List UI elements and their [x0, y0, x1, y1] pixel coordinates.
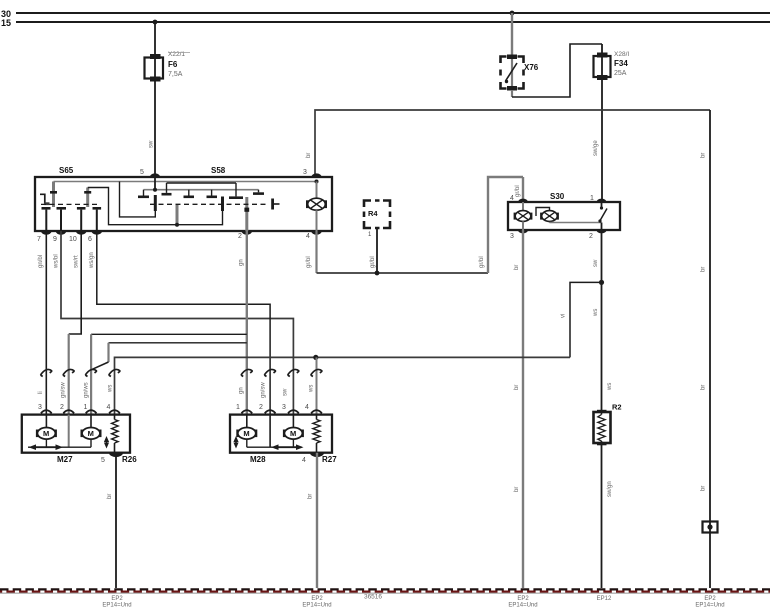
link line under motors [247, 446, 302, 448]
svg-text:7: 7 [37, 236, 41, 243]
svg-text:gn: gn [239, 259, 245, 266]
link line under motors [28, 446, 91, 448]
svg-text:EP14=Und: EP14=Und [302, 603, 331, 609]
fuse F6 7,5A [145, 54, 164, 82]
svg-text:br: br [308, 494, 314, 499]
wire br down right side to ground [709, 110, 711, 588]
svg-text:gn/ws: gn/ws [84, 382, 90, 398]
svg-text:br: br [514, 487, 520, 492]
svg-text:gn/bl: gn/bl [38, 255, 44, 268]
wire S65 pin10 net [69, 231, 82, 334]
direction arrow (vertical) M27 [106, 439, 108, 446]
svg-text:EP12: EP12 [597, 596, 612, 602]
pin bumps M28 top [241, 410, 252, 413]
S65 internal rail R1 (gray) [54, 181, 317, 183]
motor M28-a [236, 428, 257, 440]
wire into S30 pin 4 [522, 177, 524, 202]
wire S58 pin4 down [315, 231, 317, 273]
resistor R27 zigzag [316, 415, 318, 420]
ground bus bar [0, 589, 770, 593]
S58 fixed contact A [143, 190, 145, 196]
pin 4 bottom bump [311, 231, 322, 235]
svg-text:br: br [701, 267, 707, 272]
svg-text:li: li [38, 391, 44, 394]
svg-text:M27: M27 [57, 455, 73, 464]
S65 moving contact bar 2 [86, 188, 89, 208]
fuse F34 25A [594, 44, 611, 80]
resistor R2 [594, 410, 611, 446]
svg-text:ws: ws [108, 385, 114, 393]
direction arrow (horizontal) M28 [275, 446, 300, 448]
svg-text:gr/bl: gr/bl [479, 256, 485, 268]
svg-text:M: M [88, 429, 94, 438]
svg-text:1: 1 [84, 404, 88, 411]
node junction y357 at M28 pin4 [313, 355, 318, 360]
switch contact in S30 [598, 202, 607, 230]
S65-S58 link wire (path A) [88, 188, 223, 225]
svg-text:2: 2 [60, 404, 64, 411]
svg-text:7,5A: 7,5A [168, 71, 183, 78]
svg-text:br: br [514, 385, 520, 390]
node junction M2 [175, 223, 179, 227]
S58 fixed contact D [211, 190, 213, 196]
svg-text:EP14=Und: EP14=Und [695, 603, 724, 609]
wire up to y177 [488, 177, 523, 273]
pin 4 bottom bump [310, 453, 324, 457]
S65 fixed contact pin 7 [42, 207, 51, 210]
svg-text:S58: S58 [211, 166, 226, 175]
inline connector on br wire [703, 522, 718, 533]
svg-text:br: br [701, 486, 707, 491]
svg-text:sw/rt: sw/rt [74, 255, 80, 268]
motor unit box M27/R26 [22, 415, 130, 453]
S58 fixed contact B [166, 183, 168, 193]
svg-text:EP2: EP2 [311, 596, 323, 602]
svg-text:1: 1 [368, 232, 372, 238]
motor unit box M28/R27 [230, 415, 332, 453]
svg-text:ws: ws [607, 383, 613, 391]
wire net y334 (to M27 pin1) [91, 333, 247, 335]
pin 3 top bump [311, 173, 321, 177]
wire M28 pin4 stub [316, 357, 318, 414]
svg-text:R4: R4 [368, 209, 378, 218]
svg-text:4: 4 [510, 195, 514, 202]
S58 coupling dashed line [150, 203, 268, 205]
wire rail 30 [16, 12, 770, 14]
svg-text:5: 5 [101, 457, 105, 464]
svg-text:br: br [107, 494, 113, 499]
svg-text:4: 4 [306, 233, 310, 240]
svg-text:EP2: EP2 [517, 596, 529, 602]
svg-text:9: 9 [53, 236, 57, 243]
motor M27-b [81, 428, 102, 440]
svg-text:X76: X76 [524, 63, 539, 72]
S58 moving contact M4 (pin 2, gray) [245, 197, 248, 231]
svg-text:ws: ws [309, 385, 315, 393]
svg-text:6: 6 [88, 236, 92, 243]
switch unit box S65/S58 [35, 177, 332, 231]
svg-text:S30: S30 [550, 192, 565, 201]
svg-text:vi: vi [561, 314, 567, 318]
svg-text:R2: R2 [612, 403, 622, 412]
resistor R26 zigzag [114, 415, 116, 420]
wire net y343 with diagonal [109, 342, 247, 344]
wire M27 pin4 / y357 net [115, 357, 571, 414]
svg-text:X22/1: X22/1 [168, 51, 185, 58]
svg-text:R27: R27 [322, 455, 337, 464]
S65 fixed contact pin 9 [57, 207, 67, 210]
svg-text:gr/bl: gr/bl [370, 256, 376, 268]
node junction on rail 15 at x=155 [153, 20, 158, 25]
svg-text:gn: gn [239, 387, 245, 394]
svg-text:F6: F6 [168, 60, 178, 69]
S65 fixed contact pin 10 [77, 207, 86, 210]
svg-text:br: br [514, 265, 520, 270]
S58 fixed contact E [235, 183, 237, 196]
pin 7 bottom bump [41, 231, 52, 235]
svg-text:br: br [306, 153, 312, 158]
wire F34 down to S30 pin 1 [601, 78, 603, 202]
motor M28-b [283, 428, 304, 440]
pin 4 top bump [518, 199, 528, 202]
svg-text:R26: R26 [122, 455, 137, 464]
motor M27-a [36, 428, 57, 440]
svg-text:3: 3 [38, 404, 42, 411]
S58 internal rail R2 (gray) [144, 189, 259, 191]
pin bumps M27 top [41, 410, 52, 413]
S65 fixed contact pin 6 [93, 207, 102, 210]
svg-text:EP14=Und: EP14=Und [508, 603, 537, 609]
wire X76 to F34 (L path) [512, 44, 602, 97]
svg-text:15: 15 [1, 18, 11, 28]
svg-text:X28/I: X28/I [614, 51, 629, 58]
svg-text:EP14=Und: EP14=Und [102, 603, 131, 609]
S58 link wire (path B) [120, 182, 156, 217]
S65 end stop hook [40, 194, 45, 203]
wire F6 to S58 pin 5 [154, 80, 156, 177]
svg-text:M: M [290, 429, 296, 438]
pin 2 bottom bump [242, 231, 253, 235]
svg-text:gn/sw: gn/sw [261, 382, 267, 398]
S58 moving contact M1 [154, 195, 157, 211]
svg-text:5: 5 [140, 169, 144, 176]
S58 fixed contact F [258, 190, 260, 193]
wire branch to y357 net [570, 282, 602, 357]
svg-text:sw/gn: sw/gn [607, 481, 613, 497]
S58 internal rail R3 (black) [167, 182, 237, 184]
svg-text:3: 3 [510, 233, 514, 240]
node junction lamp top [315, 180, 319, 184]
wire S30 pin2 down [601, 230, 603, 412]
lamp 1 in S30 [514, 202, 533, 230]
svg-text:ws/gn: ws/gn [89, 252, 95, 269]
svg-text:2: 2 [259, 404, 263, 411]
pin 3 bottom bump [518, 230, 528, 233]
resistor R4 (dashed box) [364, 201, 390, 229]
svg-text:sw/ge: sw/ge [593, 140, 599, 156]
wire pin2 into box [68, 415, 70, 448]
svg-text:gr/bl: gr/bl [515, 185, 521, 197]
svg-text:ws/bl: ws/bl [54, 254, 60, 269]
S58 fixed contact C [188, 190, 190, 196]
S58 pin5 internal wire [154, 177, 156, 190]
S58 moving contact M3 [221, 197, 224, 212]
wire S58 pin2 to M28 pin1 (gray) [246, 231, 248, 415]
lamp in S58 [306, 182, 327, 232]
wire M28 pin4 to ground EP2 [316, 453, 318, 588]
svg-text:10: 10 [69, 236, 77, 243]
pin 2 bottom bump [597, 230, 607, 233]
pin 6 bottom bump [92, 231, 103, 235]
svg-text:sw: sw [593, 259, 599, 267]
svg-text:36516: 36516 [364, 594, 382, 601]
svg-text:br: br [701, 153, 707, 158]
wire R2 to ground EP12 [601, 443, 603, 588]
wire S65 pin7 to M27 pin3 [45, 231, 47, 415]
svg-text:2: 2 [238, 233, 242, 240]
svg-text:M: M [43, 429, 49, 438]
svg-text:sw: sw [283, 388, 289, 396]
svg-text:3: 3 [282, 404, 286, 411]
svg-text:4: 4 [107, 404, 111, 411]
wire M27 pin5 to ground EP2 [115, 453, 117, 588]
svg-text:M28: M28 [250, 455, 266, 464]
lamp 2 in S30 [536, 208, 602, 223]
svg-text:ws: ws [593, 309, 599, 317]
S58 moving contact M2 (gray) [176, 205, 179, 225]
pin 5 bottom bump [109, 453, 123, 457]
svg-text:gr/bl: gr/bl [306, 256, 312, 268]
wire S65 pin9 net y320 [61, 231, 293, 415]
pin 9 bottom bump [56, 231, 67, 235]
wire S30 pin3 to ground EP2 [522, 230, 524, 588]
S65 moving contact bar 1 [52, 182, 55, 208]
wire rail 15 [16, 21, 770, 23]
svg-text:2: 2 [589, 233, 593, 240]
svg-text:25A: 25A [614, 70, 627, 77]
pin 5 top bump [150, 173, 160, 177]
svg-text:S65: S65 [59, 166, 74, 175]
wire S65 pin6 net y304 [97, 231, 270, 415]
S65 coupling dashed line [41, 203, 97, 205]
switch X76 [501, 55, 524, 91]
svg-text:4: 4 [302, 457, 306, 464]
svg-text:EP2: EP2 [704, 596, 716, 602]
wire X76 down [511, 90, 513, 97]
wire pin2 into box [269, 415, 271, 448]
wire horizontal net y273 [317, 272, 489, 274]
svg-text:M: M [243, 429, 249, 438]
pin 1 top bump [597, 199, 607, 202]
wire rail15 to fuse F6 [154, 22, 156, 57]
switch unit S30 [508, 202, 620, 230]
wire rail30 to switch X76 [511, 13, 513, 56]
wire horizontal net y110 [315, 110, 710, 177]
node junction R4 drop [375, 271, 380, 276]
node junction on rail 30 at x=512 [510, 11, 515, 16]
svg-text:4: 4 [305, 404, 309, 411]
direction arrow (horizontal) M27 [33, 446, 60, 448]
svg-text:1: 1 [590, 195, 594, 202]
pin 10 bottom bump [76, 231, 87, 235]
node junction S30 pin2 branch [599, 280, 604, 285]
svg-text:gn/sw: gn/sw [61, 382, 67, 398]
svg-text:br: br [701, 385, 707, 390]
svg-text:EP2: EP2 [111, 596, 123, 602]
S58 coupling end contact [271, 199, 274, 210]
svg-text:F34: F34 [614, 59, 628, 68]
direction arrow (vertical) M28 [235, 439, 237, 446]
svg-text:1: 1 [236, 404, 240, 411]
svg-text:3: 3 [303, 169, 307, 176]
svg-text:sw: sw [149, 140, 155, 148]
